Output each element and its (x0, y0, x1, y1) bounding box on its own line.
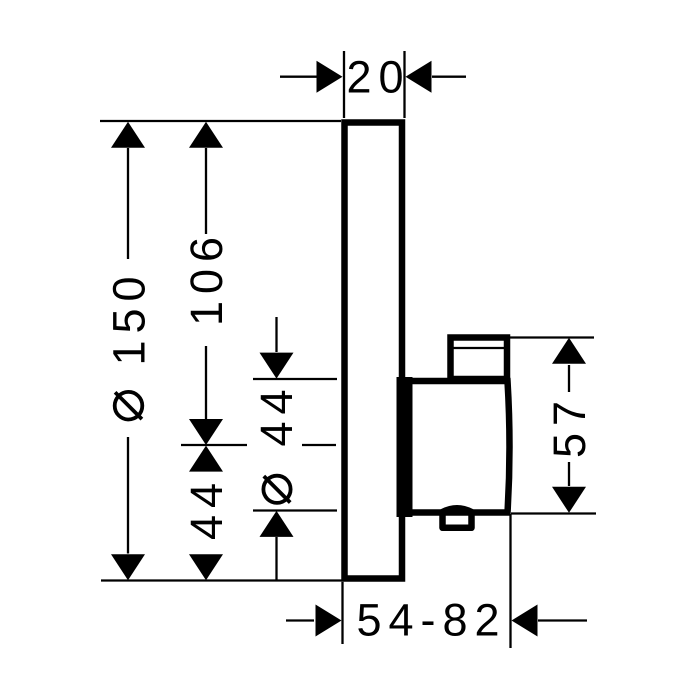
svg-text:44: 44 (181, 476, 232, 540)
svg-text:150: 150 (104, 269, 155, 365)
svg-text:57: 57 (544, 394, 595, 458)
svg-text:54-82: 54-82 (356, 595, 506, 646)
svg-text:44: 44 (251, 382, 302, 446)
svg-text:106: 106 (181, 230, 232, 326)
svg-text:20: 20 (346, 52, 410, 103)
